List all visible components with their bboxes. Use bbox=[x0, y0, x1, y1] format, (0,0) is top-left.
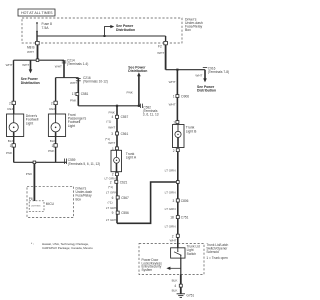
svg-text:(*1): (*1) bbox=[108, 200, 113, 204]
svg-text:WHT: WHT bbox=[108, 125, 115, 129]
svg-text:PNK: PNK bbox=[26, 172, 33, 176]
svg-text:1: 1 bbox=[10, 144, 12, 148]
node junction with trunk A bbox=[176, 181, 179, 184]
terminal F2 bbox=[165, 36, 167, 41]
svg-text:D906: D906 bbox=[181, 94, 189, 98]
svg-text:Fuse 8: Fuse 8 bbox=[42, 22, 52, 26]
connector C582 bbox=[139, 104, 141, 108]
wire bus y60 bbox=[14, 59, 65, 61]
svg-text:WHT: WHT bbox=[70, 81, 77, 85]
connector C561 pin 3 bbox=[111, 132, 128, 136]
micu dashed box (driver's under-dash fuse/relay box) bbox=[27, 186, 74, 217]
svg-text:Switch: Switch bbox=[187, 252, 197, 256]
svg-text:LT GRN: LT GRN bbox=[165, 191, 176, 195]
svg-text:WHT: WHT bbox=[195, 74, 202, 78]
svg-text:C581: C581 bbox=[81, 92, 89, 96]
svg-text:2: 2 bbox=[110, 180, 112, 184]
svg-text:18: 18 bbox=[170, 216, 174, 220]
lamp driver's footwell light bbox=[6, 101, 39, 162]
wire bus y162.3 bbox=[14, 161, 67, 163]
wire trunk A ground path bbox=[116, 176, 118, 224]
svg-text:LT GRN: LT GRN bbox=[106, 206, 117, 210]
svg-text:Box: Box bbox=[185, 28, 191, 32]
connector C214 bbox=[63, 60, 65, 77]
node junction trunk B bbox=[176, 69, 178, 71]
svg-text:3: 3 bbox=[173, 199, 175, 203]
node junction up arrow bbox=[138, 105, 140, 107]
svg-text:WHT: WHT bbox=[55, 64, 62, 68]
svg-text:* :: * : bbox=[31, 242, 34, 246]
wire branch to power distribution bbox=[105, 27, 111, 36]
svg-text:PNK: PNK bbox=[6, 151, 13, 155]
svg-text:C567: C567 bbox=[121, 196, 129, 200]
connector C557 pin 4 bbox=[112, 115, 129, 119]
svg-text:C751: C751 bbox=[181, 216, 189, 220]
connector C806 pin 3 bbox=[173, 199, 189, 203]
svg-text:Distribution: Distribution bbox=[21, 81, 40, 85]
svg-text:4: 4 bbox=[174, 284, 176, 288]
wire trunk A to trunk B join bbox=[117, 182, 177, 223]
svg-text:17: 17 bbox=[72, 92, 76, 96]
svg-text:PNK: PNK bbox=[48, 149, 55, 153]
wire main drop from M8 bbox=[37, 45, 39, 60]
svg-text:1: 1 bbox=[173, 94, 175, 98]
svg-text:HOT AT ALL TIMES: HOT AT ALL TIMES bbox=[21, 11, 53, 15]
terminal M8 B bbox=[36, 41, 40, 44]
svg-text:Box: Box bbox=[76, 197, 82, 201]
svg-text:4: 4 bbox=[112, 115, 114, 119]
svg-text:(Terminals 10-12): (Terminals 10-12) bbox=[83, 79, 108, 83]
svg-text:1 = Trunk open: 1 = Trunk open bbox=[206, 256, 228, 260]
svg-text:PNK: PNK bbox=[127, 91, 134, 95]
svg-text:2: 2 bbox=[9, 101, 11, 105]
svg-text:WHT: WHT bbox=[22, 63, 29, 67]
node internal branch bbox=[104, 35, 106, 37]
svg-text:LIGHTING: LIGHTING bbox=[31, 206, 41, 208]
connector C621 pin 2 bbox=[110, 180, 128, 184]
wire fuse to internal bus bbox=[36, 32, 38, 42]
wire passenger footwell feed bbox=[55, 78, 57, 102]
trunk lid light switch dashed box bbox=[139, 244, 204, 275]
lamp trunk light A bbox=[111, 150, 137, 171]
svg-text:WHT: WHT bbox=[170, 238, 177, 242]
wire up branch to power distribution bbox=[138, 76, 140, 106]
label power door locks/keyless entry/security system bbox=[142, 258, 163, 272]
svg-text:LT GRN: LT GRN bbox=[106, 191, 117, 195]
svg-text:PNK: PNK bbox=[70, 99, 77, 103]
svg-text:9: 9 bbox=[112, 211, 114, 215]
svg-text:System: System bbox=[142, 268, 153, 272]
wire driver footwell feed bbox=[13, 60, 15, 101]
micu inner box bbox=[29, 197, 55, 212]
wire to ground bbox=[180, 275, 182, 294]
label trunk lid/latch switch/opener solenoid bbox=[206, 243, 228, 260]
svg-text:3: 3 bbox=[111, 132, 113, 136]
pin 2 trunk light A bbox=[115, 173, 118, 176]
svg-text:WHT: WHT bbox=[27, 50, 34, 54]
svg-text:WHT: WHT bbox=[6, 63, 13, 67]
fuse F8 (Fuse 8 7.5A) bbox=[36, 22, 52, 33]
wire C216 drop bbox=[77, 78, 79, 106]
svg-text:G751: G751 bbox=[186, 294, 194, 298]
svg-text:WHT: WHT bbox=[169, 80, 176, 84]
svg-text:C561: C561 bbox=[121, 132, 129, 136]
svg-text:Light A: Light A bbox=[126, 156, 137, 160]
wire bus y105.8 bbox=[78, 105, 140, 107]
svg-text:Light: Light bbox=[68, 124, 75, 128]
wire arrow branch to power distribution bbox=[30, 60, 32, 70]
svg-text:(*1): (*1) bbox=[106, 119, 111, 123]
svg-text:C557: C557 bbox=[121, 115, 129, 119]
driver's under-dash fuse/relay box (dashed) bbox=[22, 18, 182, 43]
svg-text:Distribution: Distribution bbox=[197, 88, 216, 92]
wire F2 bus y69.7 bbox=[165, 45, 167, 70]
svg-text:2: 2 bbox=[51, 101, 53, 105]
svg-text:(Terminals 7-8): (Terminals 7-8) bbox=[208, 70, 229, 74]
connector C567 pin 6 bbox=[112, 196, 129, 200]
ground G751 bbox=[177, 294, 195, 298]
svg-text:3, 6, 11, 13: 3, 6, 11, 13 bbox=[143, 112, 159, 116]
svg-text:LT GRN: LT GRN bbox=[165, 168, 176, 172]
lamp front passenger's footwell light bbox=[48, 101, 86, 162]
hot at all times box bbox=[18, 9, 55, 16]
svg-text:F2: F2 bbox=[158, 45, 162, 49]
wire trunk B ground path bbox=[177, 152, 179, 244]
svg-text:Solenoid: Solenoid bbox=[206, 250, 219, 254]
svg-text:MICU: MICU bbox=[46, 202, 55, 206]
svg-text:(*1): (*1) bbox=[108, 185, 113, 189]
svg-text:1: 1 bbox=[52, 144, 54, 148]
svg-text:BLK: BLK bbox=[172, 279, 179, 283]
svg-text:(Terminals 5, 6, 11, 12): (Terminals 5, 6, 11, 12) bbox=[68, 162, 100, 166]
node junction micu drop bbox=[33, 161, 36, 164]
svg-text:2: 2 bbox=[173, 149, 175, 153]
node junction bbox=[36, 59, 39, 62]
svg-text:Light B: Light B bbox=[186, 129, 197, 133]
connector C556 pin 9 bbox=[112, 211, 129, 215]
pin 2 trunk light B bbox=[176, 149, 179, 152]
svg-text:WHT: WHT bbox=[157, 51, 164, 55]
lamp trunk light B bbox=[173, 125, 198, 148]
svg-text:LT GRN: LT GRN bbox=[165, 207, 176, 211]
svg-text:1: 1 bbox=[173, 121, 175, 125]
label driver's under-dash fuse/relay box bbox=[185, 17, 203, 32]
svg-text:M8 B: M8 B bbox=[27, 45, 34, 49]
wire internal bus to F2 bbox=[37, 35, 166, 37]
switch trunk lid light switch bbox=[171, 244, 200, 259]
wire link y77.6 bbox=[56, 77, 79, 79]
svg-text:P6: P6 bbox=[29, 197, 33, 201]
svg-text:C806: C806 bbox=[181, 199, 189, 203]
connector C216 bbox=[76, 78, 81, 80]
svg-text:C556: C556 bbox=[121, 211, 129, 215]
connector C581 pin 17 bbox=[72, 92, 89, 96]
node junction trunk A bbox=[116, 105, 118, 107]
svg-text:Distribution: Distribution bbox=[116, 28, 135, 32]
svg-text:C621: C621 bbox=[120, 180, 128, 184]
wire trunk light B feed bbox=[176, 70, 178, 121]
wire micu drop bbox=[33, 164, 35, 201]
svg-text:WHT: WHT bbox=[108, 141, 115, 145]
connector C751 pin 18 bbox=[170, 216, 188, 220]
svg-text:BLK: BLK bbox=[172, 289, 179, 293]
svg-text:Distribution: Distribution bbox=[128, 69, 147, 73]
connector C559 bbox=[64, 159, 66, 165]
wire trunk light A feed bbox=[116, 106, 118, 147]
wire switch output and branch arrow bbox=[180, 258, 182, 274]
svg-text:7.5A: 7.5A bbox=[42, 26, 50, 30]
footnote bbox=[31, 242, 93, 250]
connector C916 and arrow to power distribution bbox=[195, 66, 229, 82]
svg-text:WHT: WHT bbox=[169, 102, 176, 106]
connector D906 pin 1 bbox=[173, 94, 189, 98]
svg-text:Light: Light bbox=[26, 121, 33, 125]
svg-text:(Terminals 1-4): (Terminals 1-4) bbox=[67, 62, 88, 66]
svg-text:CARS/PAX Package; Canada, Mexi: CARS/PAX Package; Canada, Mexico bbox=[42, 246, 93, 250]
svg-text:LT GRN: LT GRN bbox=[165, 225, 176, 229]
svg-text:LT GRN: LT GRN bbox=[106, 218, 117, 222]
svg-text:PNK: PNK bbox=[109, 110, 116, 114]
